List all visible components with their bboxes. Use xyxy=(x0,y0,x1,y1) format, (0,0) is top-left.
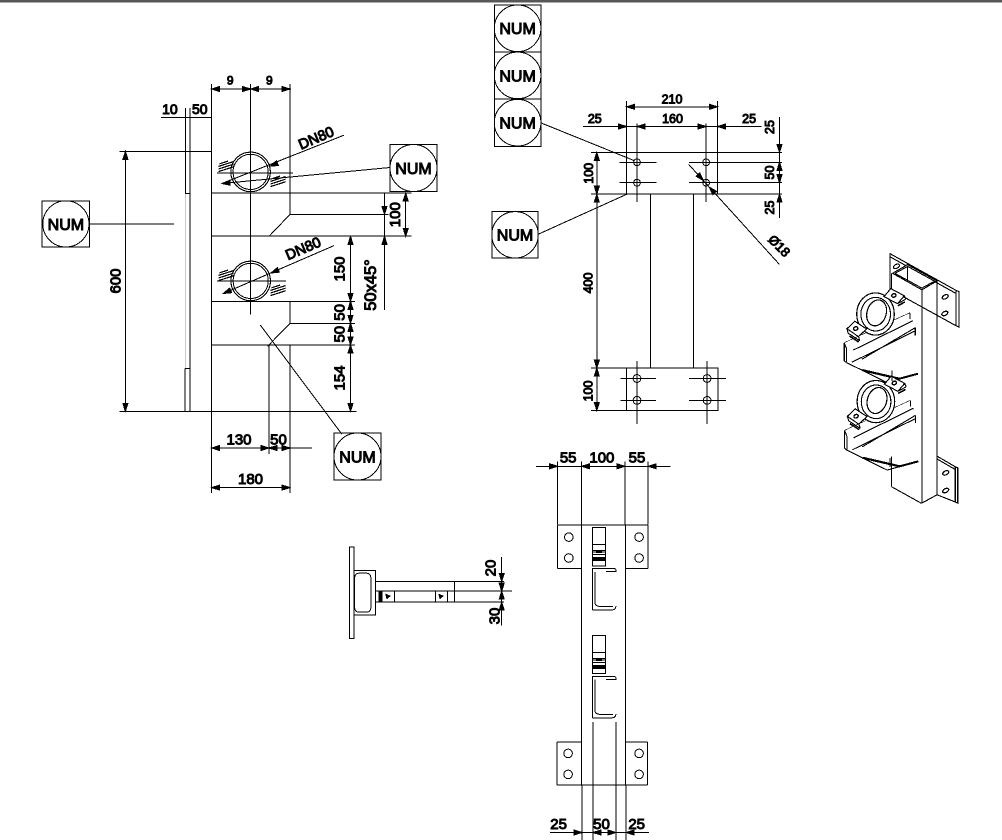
dims 130 50 xyxy=(211,411,213,493)
dim 9 9 xyxy=(212,88,290,90)
svg-text:180: 180 xyxy=(238,471,263,488)
column xyxy=(649,194,651,368)
bottom plate xyxy=(627,368,719,410)
bottom lug xyxy=(847,321,867,336)
svg-text:9: 9 xyxy=(227,74,234,88)
dim 210 xyxy=(626,101,628,152)
svg-text:NUM: NUM xyxy=(395,161,431,178)
balloon stack x3 xyxy=(494,5,541,52)
part top edge + flange plates xyxy=(558,524,649,526)
DN80 label 1 + leader xyxy=(222,135,344,183)
pipe 1 DN80 xyxy=(231,152,271,192)
svg-text:50: 50 xyxy=(192,101,208,117)
channel top edge xyxy=(844,313,910,343)
clamp ring xyxy=(857,293,895,335)
svg-text:400: 400 xyxy=(582,273,596,294)
svg-text:130: 130 xyxy=(226,432,251,449)
svg-text:50x45°: 50x45° xyxy=(362,259,380,311)
svg-text:160: 160 xyxy=(662,112,683,126)
clamp unit 2 xyxy=(592,636,616,718)
svg-text:150: 150 xyxy=(332,256,349,281)
channel bottom flange xyxy=(846,363,886,383)
iso square tube column xyxy=(893,265,937,290)
svg-text:100: 100 xyxy=(582,381,596,402)
balloon NUM left xyxy=(42,201,89,247)
svg-text:10: 10 xyxy=(162,101,178,117)
iso top mounting plate xyxy=(890,254,956,326)
svg-text:100: 100 xyxy=(387,202,404,227)
svg-text:100: 100 xyxy=(582,163,596,184)
bottom bolts xyxy=(633,375,641,383)
bracket plate outline xyxy=(211,84,213,411)
dim 100 bottom xyxy=(591,367,627,369)
svg-text:50: 50 xyxy=(270,432,287,449)
bottom base line xyxy=(120,410,357,412)
svg-text:25: 25 xyxy=(588,112,602,126)
iso bottom mounting plate xyxy=(937,456,955,502)
svg-text:50: 50 xyxy=(332,326,349,343)
svg-text:600: 600 xyxy=(108,268,125,293)
svg-text:25: 25 xyxy=(742,112,756,126)
svg-text:55: 55 xyxy=(629,450,646,467)
connector line channel1 to clamp2 lug xyxy=(891,370,893,381)
top plate xyxy=(627,152,718,194)
dim 100 (right of arm1) xyxy=(405,193,407,236)
dim 400 xyxy=(596,194,598,368)
dim 25 160 25 xyxy=(583,126,761,128)
svg-text:30: 30 xyxy=(487,608,504,625)
balloon NUM right (pipe1) xyxy=(390,145,437,192)
bottom dims 25 50 25 xyxy=(581,785,583,840)
svg-text:NUM: NUM xyxy=(499,21,535,38)
wall plate xyxy=(349,547,354,639)
dia18 leader xyxy=(689,164,780,264)
svg-text:100: 100 xyxy=(589,450,614,467)
channel left cap xyxy=(843,343,845,361)
web xyxy=(580,525,582,785)
svg-text:50: 50 xyxy=(593,816,610,833)
balloon NUM bottom + leader xyxy=(334,433,381,480)
arm edges xyxy=(120,150,212,152)
dims 55 100 55 xyxy=(536,465,671,467)
clamp saddle xyxy=(354,570,375,615)
svg-text:25: 25 xyxy=(763,120,777,134)
right chain 25 50 25 xyxy=(718,151,783,153)
dim 600 xyxy=(124,151,126,411)
dim 180 xyxy=(212,487,290,489)
svg-text:DN80: DN80 xyxy=(283,235,323,264)
iso clamp + channel unit 2 xyxy=(845,376,919,470)
svg-text:20: 20 xyxy=(483,560,500,577)
svg-text:NUM: NUM xyxy=(499,68,535,85)
bottom flange plates xyxy=(557,741,582,743)
iso clamp + channel unit 1 xyxy=(844,289,918,383)
arm xyxy=(376,581,455,602)
svg-text:25: 25 xyxy=(628,816,645,833)
dims 20 30 xyxy=(454,580,504,582)
DN80 label 2 + leader xyxy=(223,246,334,294)
svg-text:50: 50 xyxy=(763,166,777,180)
svg-text:9: 9 xyxy=(266,74,273,88)
dim 50x45 xyxy=(384,193,386,310)
balloon single xyxy=(492,211,538,258)
wall plate edge-on xyxy=(185,108,187,194)
svg-text:DN80: DN80 xyxy=(296,124,336,153)
svg-text:25: 25 xyxy=(763,201,777,215)
svg-text:50: 50 xyxy=(332,304,349,321)
svg-text:NUM: NUM xyxy=(499,116,535,133)
svg-text:55: 55 xyxy=(560,450,577,467)
centerlines xyxy=(250,84,252,315)
leader through pipe2 xyxy=(222,288,231,296)
pipe 2 DN80 xyxy=(231,261,271,301)
svg-text:NUM: NUM xyxy=(339,450,375,467)
svg-text:NUM: NUM xyxy=(48,217,84,234)
svg-text:Ø18: Ø18 xyxy=(765,232,793,260)
svg-text:154: 154 xyxy=(332,365,349,390)
dim 100 left top xyxy=(591,151,627,153)
svg-text:NUM: NUM xyxy=(497,228,533,245)
chain dims 150/50/50/154 xyxy=(350,236,352,411)
label 10 50 xyxy=(161,117,212,119)
svg-text:25: 25 xyxy=(550,816,567,833)
iso column bottom cut xyxy=(892,487,922,504)
svg-text:210: 210 xyxy=(662,92,683,106)
top lug xyxy=(884,289,904,304)
top bolts xyxy=(634,159,641,166)
clamp unit 1 xyxy=(592,528,616,610)
top toolbar bar xyxy=(0,0,1002,2)
